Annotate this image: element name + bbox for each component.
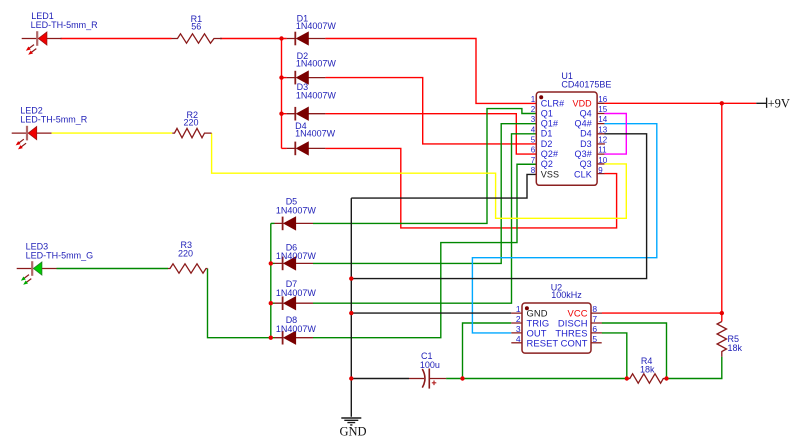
svg-text:6: 6 <box>531 146 536 155</box>
svg-text:4: 4 <box>516 334 521 344</box>
svg-text:CLK: CLK <box>574 169 592 179</box>
svg-text:D4: D4 <box>580 129 592 139</box>
junction R4 left <box>625 376 629 380</box>
svg-text:4: 4 <box>531 125 536 134</box>
svg-text:11: 11 <box>598 146 607 155</box>
op-amp U2 body 555 timer <box>511 282 601 353</box>
svg-text:Q3: Q3 <box>580 159 592 169</box>
svg-text:13: 13 <box>598 125 607 134</box>
svg-text:RESET: RESET <box>527 337 559 348</box>
wire U1 pin 8 VSS to ground bus <box>351 174 536 198</box>
wire vertical D5-D8 cathode bus <box>270 223 272 337</box>
U1 pin names left <box>541 98 564 179</box>
svg-text:GND: GND <box>340 425 367 439</box>
junction +9V row <box>720 101 724 105</box>
svg-text:1N4007W: 1N4007W <box>296 91 337 101</box>
junction R1/D1 node <box>279 36 283 40</box>
resistor R4 <box>627 374 667 383</box>
svg-text:VDD: VDD <box>572 98 592 108</box>
junction ground bus / pin13 <box>349 276 353 280</box>
wire U2 pin 2 TRIG down to rail <box>463 323 512 379</box>
pin stubs U2 left side <box>511 313 522 333</box>
svg-text:100kHz: 100kHz <box>551 290 582 300</box>
op-amp U1 body CD40175BE <box>531 71 612 186</box>
wire U1 pin 15 Q4 to pin 11 Q3# <box>604 114 626 155</box>
wire LED3 to R3 <box>57 268 169 270</box>
junction D3 node <box>279 112 283 116</box>
wire bus to D5 cathode <box>271 222 275 224</box>
wire R2 to U1 pin 10 Q3 <box>212 133 627 218</box>
diode D7 <box>275 296 314 310</box>
svg-text:100u: 100u <box>420 360 440 370</box>
U2 pin numbers left <box>516 304 521 344</box>
wire bus to D6 cathode <box>271 262 275 264</box>
wire D5 anode to U1 pin 2 Q1 <box>313 109 536 224</box>
LED LED2 <box>12 126 52 151</box>
svg-text:3: 3 <box>531 115 536 124</box>
pin stubs U1 right side <box>597 103 604 173</box>
svg-text:15: 15 <box>598 105 607 114</box>
diode D8 <box>275 331 314 345</box>
LED LED3 <box>17 261 57 286</box>
resistor R2 <box>172 128 211 137</box>
svg-text:1N4007W: 1N4007W <box>296 59 337 69</box>
svg-text:5: 5 <box>592 334 597 344</box>
svg-text:8: 8 <box>592 304 597 314</box>
diode D1 <box>287 32 326 46</box>
svg-text:Q4#: Q4# <box>574 119 591 129</box>
svg-text:220: 220 <box>184 118 199 128</box>
svg-text:5: 5 <box>531 136 536 145</box>
svg-text:1: 1 <box>516 304 521 314</box>
wire node vertical D1-D4 cathode bus <box>281 39 283 149</box>
svg-text:D1: D1 <box>541 129 553 139</box>
wire bus to D4 cathode <box>282 147 287 149</box>
U2 pin numbers right <box>592 304 597 344</box>
wire bus to D2 cathode <box>282 77 287 79</box>
pin 4 stub unconnected <box>511 342 522 344</box>
junction ground bus / C1 row <box>349 376 353 380</box>
svg-text:10: 10 <box>598 156 607 165</box>
svg-text:1N4007W: 1N4007W <box>276 324 317 334</box>
wire +9V rail down to VCC row <box>721 103 723 313</box>
resistor R3 <box>168 264 208 273</box>
svg-text:Q2: Q2 <box>541 159 553 169</box>
pin stubs U2 right side <box>591 313 602 333</box>
U2 pin names left <box>527 308 559 349</box>
wire D3 anode to U1 pin 6 Q2# <box>325 114 536 154</box>
wire D1 anode to U1 pin 1 CLR# <box>325 39 536 104</box>
svg-text:LED-TH-5mm_G: LED-TH-5mm_G <box>26 251 94 261</box>
junction VCC row <box>720 311 724 315</box>
svg-text:D2: D2 <box>541 139 553 149</box>
U1 pin numbers right <box>598 95 607 175</box>
wire U1 pin 14 Q4# to U2 pin 3 OUT <box>472 124 656 333</box>
wire D2 anode to U1 pin 5 D2 <box>325 78 536 144</box>
wire R1 to D1 node <box>220 38 287 40</box>
wire U2 pin 8 VCC to rail <box>602 312 722 314</box>
svg-text:7: 7 <box>531 156 536 165</box>
junction D6 node <box>269 261 273 265</box>
junction D7 node <box>269 301 273 305</box>
svg-text:18k: 18k <box>640 364 655 374</box>
svg-text:1N4007W: 1N4007W <box>276 251 317 261</box>
wire ground vertical bus <box>350 198 352 417</box>
U1 pin numbers left <box>531 95 536 175</box>
svg-text:220: 220 <box>178 249 193 259</box>
wire VCC node down to R5 <box>721 313 723 321</box>
svg-text:12: 12 <box>598 136 607 145</box>
diode D4 <box>287 142 326 156</box>
svg-text:D3: D3 <box>580 139 592 149</box>
svg-text:Q1#: Q1# <box>541 119 558 129</box>
wire U1 pin 13 D4 to ground bus <box>351 134 646 279</box>
wire D7 anode to U1 pin 4 D1 <box>313 134 536 303</box>
junction ground bus / U2 GND <box>349 311 353 315</box>
svg-text:1: 1 <box>531 95 536 104</box>
svg-text:Q4: Q4 <box>580 108 592 118</box>
wire bus to D7 cathode <box>271 302 275 304</box>
resistor R1 <box>172 34 223 43</box>
junction R4 right <box>664 376 668 380</box>
wire D4 anode to U1 pin 9 CLK <box>325 148 616 228</box>
svg-text:9: 9 <box>598 166 603 175</box>
diode D3 <box>287 107 326 121</box>
svg-text:1N4007W: 1N4007W <box>296 21 337 31</box>
LED LED1 <box>22 31 62 56</box>
svg-text:16: 16 <box>598 95 607 104</box>
junction D2 node <box>279 75 283 79</box>
resistor R5 <box>717 322 726 357</box>
svg-text:18k: 18k <box>728 343 743 353</box>
wire LED1 to R1 <box>61 38 172 40</box>
diode D5 <box>275 217 314 231</box>
svg-text:+9V: +9V <box>768 96 790 110</box>
svg-text:2: 2 <box>531 105 536 114</box>
svg-text:CD40175BE: CD40175BE <box>561 80 611 90</box>
pin 12 stub unconnected <box>597 143 605 145</box>
wire R4 right to R5 bottom <box>667 357 722 379</box>
wire U2 pin 7 DISCH down to R4 right <box>602 323 667 379</box>
wire U1 pin 16 VDD to +9V <box>604 102 756 104</box>
svg-text:CONT: CONT <box>561 337 588 348</box>
wire bus to D8 cathode <box>271 337 275 339</box>
U1 pin names right <box>572 98 592 179</box>
wire D6 anode to U1 pin 3 Q1# <box>313 124 536 264</box>
svg-text:2: 2 <box>516 314 521 324</box>
pin 5 stub unconnected <box>591 342 602 344</box>
wire D8 anode to U1 pin 7 Q2 <box>313 164 536 337</box>
svg-text:Q1: Q1 <box>541 108 553 118</box>
svg-text:8: 8 <box>531 166 536 175</box>
wire bus to D3 cathode <box>282 113 287 115</box>
capacitor C1 <box>409 369 446 389</box>
svg-text:1N4007W: 1N4007W <box>276 288 317 298</box>
wire rail junction to R4 left <box>463 378 627 380</box>
wire U2 pin 1 GND to ground bus <box>351 312 511 314</box>
wire U2 pin 6 THRES down to R4 left <box>602 333 627 379</box>
svg-text:7: 7 <box>592 314 597 324</box>
svg-text:6: 6 <box>592 324 597 334</box>
svg-text:3: 3 <box>516 324 521 334</box>
diode D2 <box>287 71 326 85</box>
svg-text:14: 14 <box>598 115 607 124</box>
svg-text:1N4007W: 1N4007W <box>276 206 317 216</box>
svg-text:1N4007W: 1N4007W <box>295 129 336 139</box>
svg-text:CLR#: CLR# <box>541 98 564 108</box>
svg-text:Q2#: Q2# <box>541 149 558 159</box>
svg-text:Q3#: Q3# <box>574 149 591 159</box>
ground GND symbol <box>341 418 361 425</box>
wire ground bus to C1 <box>351 378 409 380</box>
power +9V symbol <box>756 96 790 110</box>
U2 pin names right <box>555 308 587 349</box>
svg-text:56: 56 <box>191 22 201 32</box>
junction C1/TRIG rail <box>460 376 464 380</box>
svg-text:LED-TH-5mm_R: LED-TH-5mm_R <box>31 20 99 30</box>
junction D8/R3 node <box>269 336 273 340</box>
wire R3 down to D8 row <box>208 269 271 338</box>
svg-text:LED-TH-5mm_R: LED-TH-5mm_R <box>20 115 88 125</box>
diode D6 <box>275 257 314 271</box>
svg-text:VSS: VSS <box>541 169 559 179</box>
wire C1 to rail junction <box>446 378 462 380</box>
wire LED2 to R2 <box>52 132 173 134</box>
